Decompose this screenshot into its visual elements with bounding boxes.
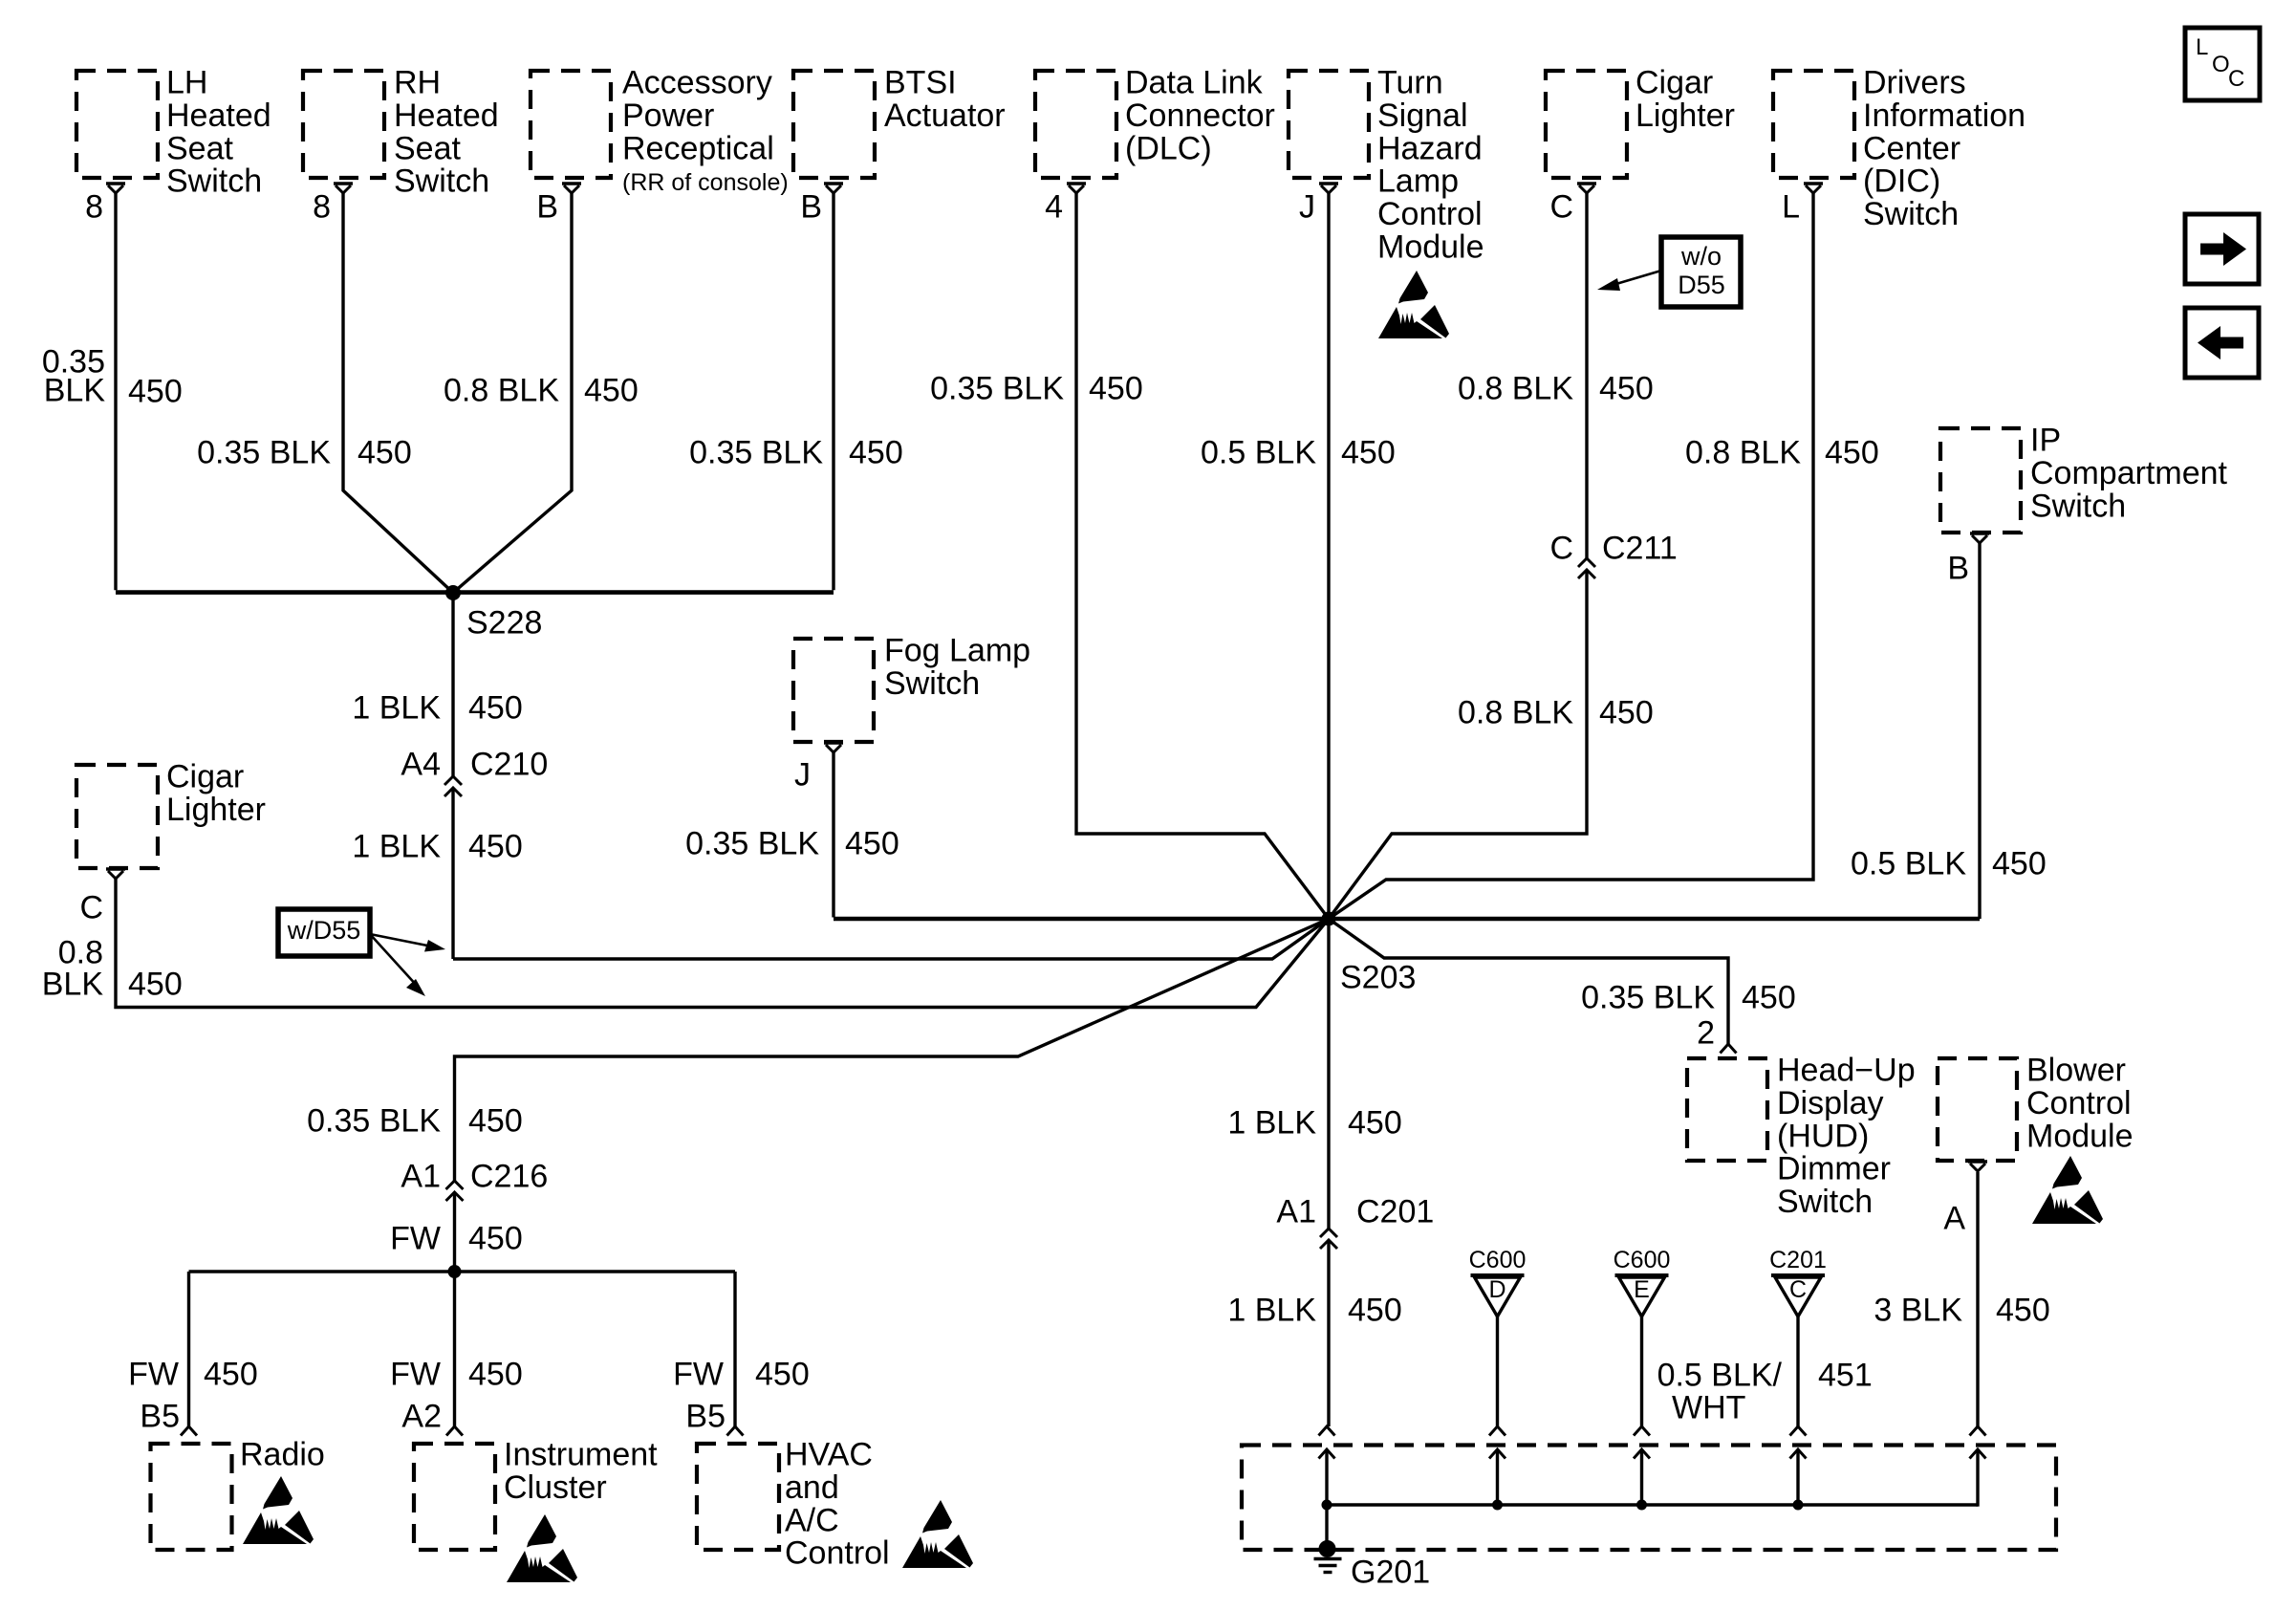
svg-text:0.35 BLK: 0.35 BLK — [689, 435, 823, 471]
svg-text:8: 8 — [313, 189, 331, 226]
svg-text:B: B — [536, 189, 558, 226]
pin connector under IP compartment switch — [1970, 533, 1989, 543]
svg-text:Seat: Seat — [166, 130, 233, 166]
svg-text:Switch: Switch — [166, 163, 262, 200]
svg-text:C: C — [79, 890, 103, 926]
wire inside harness box (turn signal trunk) — [1325, 1449, 1328, 1507]
label A1 C216 — [401, 1159, 548, 1195]
svg-text:J: J — [794, 757, 811, 794]
label 0.8 BLK 450 (DIC wire) — [1685, 435, 1879, 471]
svg-text:Dimmer: Dimmer — [1777, 1151, 1891, 1187]
svg-text:Connector: Connector — [1125, 98, 1275, 134]
label 0.35 BLK 450 (LH wire) — [42, 344, 183, 410]
wire 0.35 BLK 450 from fog lamp switch — [832, 752, 834, 918]
svg-text:Module: Module — [2026, 1118, 2134, 1154]
svg-text:D: D — [1488, 1276, 1505, 1303]
svg-text:Switch: Switch — [1777, 1184, 1873, 1220]
right arrow glyph — [2200, 232, 2246, 266]
svg-text:450: 450 — [468, 1103, 523, 1140]
component box: Turn Signal Hazard Lamp Control Module — [1289, 71, 1369, 178]
svg-text:Switch: Switch — [1863, 196, 1959, 232]
label A4 C210 — [401, 747, 548, 783]
label 0.35 BLK 450 (fog lamp wire) — [685, 826, 899, 862]
harness crossing flare below box edge (C600 D) — [1489, 1449, 1505, 1459]
label 1 BLK 450 (below C210) — [352, 829, 522, 865]
svg-text:Cigar: Cigar — [1635, 65, 1713, 101]
svg-text:FW: FW — [390, 1221, 441, 1257]
svg-text:1 BLK: 1 BLK — [352, 690, 441, 727]
label 0.8 BLK 450 (below C211) — [1458, 695, 1654, 731]
label 0.8 BLK 450 (cigar lighter left wire) — [42, 935, 183, 1003]
component box: Cigar Lighter (left) — [76, 765, 158, 868]
wire inside harness box (C600 D) — [1496, 1449, 1499, 1507]
svg-text:Display: Display — [1777, 1085, 1883, 1121]
svg-text:RH: RH — [394, 65, 441, 101]
component box: Instrument Cluster — [414, 1444, 495, 1550]
component box: Fog Lamp Switch — [793, 639, 874, 742]
connector triangle C600 pin E — [1614, 1247, 1671, 1316]
svg-text:450: 450 — [128, 374, 183, 410]
label 1 BLK 450 (below C201) — [1227, 1293, 1401, 1329]
ESD symbol (HVAC control) — [902, 1500, 973, 1568]
svg-text:FW: FW — [128, 1357, 179, 1393]
label: Drivers Information Center (DIC) Switch — [1863, 65, 2025, 233]
svg-text:0.35 BLK: 0.35 BLK — [1581, 980, 1715, 1016]
harness crossing flare above box edge (blower) — [1970, 1426, 1986, 1436]
svg-text:Switch: Switch — [394, 163, 489, 200]
svg-text:Blower: Blower — [2026, 1053, 2126, 1089]
harness crossing flare below box edge (C600 E) — [1634, 1449, 1650, 1459]
svg-text:450: 450 — [755, 1357, 810, 1393]
wire from C600 E to harness — [1640, 1316, 1643, 1426]
svg-text:L: L — [2196, 34, 2208, 60]
svg-text:FW: FW — [390, 1357, 441, 1393]
component box: LH Heated Seat Switch — [76, 71, 158, 178]
pin connector on top of HVAC control — [727, 1426, 744, 1436]
label: HVAC and A/C Control — [785, 1437, 890, 1572]
svg-text:0.8 BLK: 0.8 BLK — [1685, 435, 1801, 471]
pin connector under LH switch — [106, 184, 125, 193]
svg-text:C: C — [1549, 531, 1573, 567]
ground symbol G201 — [1314, 1559, 1342, 1573]
svg-text:Heated: Heated — [394, 98, 499, 134]
svg-text:4: 4 — [1045, 189, 1063, 226]
svg-text:Cluster: Cluster — [504, 1469, 607, 1506]
arrow from w/D55 to lower wire — [370, 934, 418, 987]
svg-text:A1: A1 — [1276, 1194, 1316, 1230]
svg-text:450: 450 — [1996, 1293, 2050, 1329]
svg-text:Control: Control — [1377, 196, 1483, 232]
svg-text:C201: C201 — [1356, 1194, 1434, 1230]
svg-text:0.5 BLK: 0.5 BLK — [1201, 435, 1316, 471]
svg-text:Lighter: Lighter — [166, 792, 266, 828]
wire inside harness box (blower) — [1976, 1449, 1979, 1507]
svg-text:C201: C201 — [1769, 1247, 1827, 1273]
svg-text:Switch: Switch — [884, 665, 980, 702]
label 0.35 BLK 450 (RH wire) — [197, 435, 412, 471]
svg-text:C210: C210 — [470, 747, 548, 783]
svg-text:O: O — [2212, 52, 2230, 77]
svg-text:B: B — [800, 189, 822, 226]
connector C201 (pin A1) — [1320, 1229, 1337, 1249]
svg-text:A2: A2 — [401, 1399, 442, 1435]
component box: Accessory Power Receptical — [531, 71, 611, 178]
wire 1 BLK 450 below C210 — [451, 788, 454, 959]
harness crossing flare below box edge (C201 C) — [1790, 1449, 1807, 1459]
wire from C210 leg to splice S203 (w/D55 branch) — [453, 919, 1329, 959]
wire 0.8 BLK 450 from DIC pin L to S203 — [1329, 192, 1813, 919]
legend box: right arrow — [2185, 214, 2259, 284]
wire 3 BLK 450 from blower control module — [1976, 1172, 1979, 1426]
label: Data Link Connector (DLC) — [1125, 65, 1275, 167]
pin connector under BTSI actuator — [824, 184, 843, 193]
svg-text:0.35 BLK: 0.35 BLK — [930, 371, 1064, 407]
wire 0.8 BLK 450 from cigar lighter pin C to C211 — [1585, 192, 1588, 558]
pin connector under fog lamp switch — [824, 743, 843, 752]
svg-text:w/o: w/o — [1680, 242, 1722, 271]
harness crossing flare above box edge (turn signal trunk) — [1319, 1426, 1335, 1436]
svg-text:450: 450 — [1599, 695, 1654, 731]
wire FW 450 to radio — [187, 1272, 190, 1426]
svg-text:HVAC: HVAC — [785, 1437, 873, 1473]
svg-text:and: and — [785, 1469, 839, 1506]
svg-text:BLK: BLK — [44, 373, 106, 409]
svg-text:E: E — [1634, 1276, 1650, 1303]
svg-text:A1: A1 — [401, 1159, 441, 1195]
svg-text:450: 450 — [1348, 1105, 1402, 1142]
svg-text:Head−Up: Head−Up — [1777, 1053, 1916, 1089]
svg-text:Control: Control — [785, 1535, 890, 1572]
label: Head-Up Display (HUD) Dimmer Switch — [1777, 1053, 1916, 1221]
wire from C211 down to splice S203 — [1329, 570, 1587, 919]
svg-text:450: 450 — [128, 967, 183, 1003]
svg-text:3 BLK: 3 BLK — [1874, 1293, 1962, 1329]
harness crossing flare above box edge (C600 D) — [1489, 1426, 1505, 1436]
component box: Drivers Information Center (DIC) Switch — [1773, 71, 1854, 178]
svg-text:Seat: Seat — [394, 130, 461, 166]
ESD symbol (radio) — [243, 1476, 314, 1544]
svg-text:LH: LH — [166, 65, 207, 101]
svg-text:450: 450 — [468, 690, 523, 727]
label 0.35 BLK 450 (HUD wire) — [1581, 980, 1796, 1016]
FW distribution junction dot — [448, 1265, 462, 1278]
component box: IP Compartment Switch — [1940, 428, 2021, 533]
svg-text:Compartment: Compartment — [2030, 455, 2228, 491]
svg-text:C600: C600 — [1469, 1247, 1527, 1273]
svg-text:FW: FW — [673, 1357, 724, 1393]
svg-text:G201: G201 — [1351, 1555, 1430, 1591]
pin connector on top of instrument cluster — [446, 1426, 463, 1436]
label: Turn Signal Hazard Lamp Control Module — [1377, 65, 1484, 266]
svg-text:2: 2 — [1697, 1015, 1715, 1052]
connector triangle C201 pin C — [1769, 1247, 1827, 1316]
svg-text:C: C — [1789, 1276, 1807, 1303]
svg-text:Control: Control — [2026, 1085, 2132, 1121]
svg-text:B5: B5 — [685, 1399, 726, 1435]
svg-text:B5: B5 — [140, 1399, 180, 1435]
svg-text:WHT: WHT — [1672, 1390, 1745, 1426]
svg-text:Module: Module — [1377, 229, 1484, 266]
label: Cigar Lighter (upper) — [1635, 65, 1735, 134]
harness crossing flare above box edge (C201 C) — [1790, 1426, 1807, 1436]
svg-text:J: J — [1299, 189, 1315, 226]
harness crossing flare below box edge (turn signal trunk) — [1319, 1449, 1335, 1459]
legend letters L O C — [2196, 34, 2244, 92]
pin connector under cigar lighter (left) — [106, 869, 125, 879]
svg-text:450: 450 — [1089, 371, 1143, 407]
svg-text:1 BLK: 1 BLK — [1227, 1293, 1316, 1329]
svg-text:BLK: BLK — [42, 967, 104, 1003]
svg-text:8: 8 — [85, 189, 103, 226]
svg-text:450: 450 — [204, 1357, 258, 1393]
svg-text:450: 450 — [468, 1357, 523, 1393]
label 1 BLK 450 (above C201) — [1227, 1105, 1401, 1142]
svg-text:Drivers: Drivers — [1863, 65, 1966, 101]
callout box: w/D55 — [278, 909, 370, 956]
svg-text:451: 451 — [1818, 1358, 1873, 1394]
svg-text:450: 450 — [845, 826, 899, 862]
svg-text:450: 450 — [849, 435, 903, 471]
ground bus junction dot (trunk) — [1322, 1500, 1332, 1511]
svg-text:0.8 BLK: 0.8 BLK — [1458, 695, 1573, 731]
svg-text:Accessory: Accessory — [622, 65, 772, 101]
svg-text:0.35 BLK: 0.35 BLK — [307, 1103, 441, 1140]
svg-text:L: L — [1782, 189, 1800, 226]
wire 450 from RH switch pin 8 — [343, 192, 453, 593]
pin connector under accessory power receptical — [562, 184, 581, 193]
svg-text:0.8 BLK: 0.8 BLK — [1458, 371, 1573, 407]
connector C216 (pin A1) — [446, 1181, 464, 1201]
wire inside harness box (C600 E) — [1640, 1449, 1643, 1507]
arrow from w/o D55 to cigar lighter wire — [1610, 271, 1661, 286]
svg-text:450: 450 — [1992, 846, 2047, 882]
label FW 450 (HVAC drop) — [673, 1357, 810, 1393]
svg-text:450: 450 — [1348, 1293, 1402, 1329]
ground bus junction dot (C600 E) — [1636, 1500, 1647, 1511]
svg-text:A: A — [1943, 1201, 1965, 1237]
connector triangle C600 pin D — [1469, 1247, 1527, 1316]
label: Blower Control Module — [2026, 1053, 2134, 1155]
harness crossing flare below box edge (blower) — [1970, 1449, 1986, 1459]
svg-text:Receptical: Receptical — [622, 130, 774, 166]
wire FW 450 to HVAC control — [733, 1272, 736, 1426]
label: Cigar Lighter (left) — [166, 759, 266, 828]
svg-text:Radio: Radio — [240, 1437, 325, 1473]
svg-text:Hazard: Hazard — [1377, 130, 1483, 166]
svg-text:1 BLK: 1 BLK — [1227, 1105, 1316, 1142]
svg-text:Signal: Signal — [1377, 98, 1468, 134]
label A1 C201 — [1276, 1194, 1434, 1230]
label: Accessory Power Receptical — [622, 65, 774, 167]
svg-text:S228: S228 — [466, 605, 542, 642]
svg-text:Power: Power — [622, 98, 714, 134]
svg-text:C600: C600 — [1614, 1247, 1671, 1273]
pin connector on top of HUD dimmer switch — [1721, 1044, 1737, 1054]
wire FW 450 from C216 to instrument cluster — [453, 1192, 456, 1426]
legend box: left arrow — [2185, 308, 2259, 378]
wire 0.35 BLK 450 from splice S203 to connector C216 — [455, 919, 1330, 1181]
svg-text:0.35 BLK: 0.35 BLK — [197, 435, 331, 471]
svg-text:A/C: A/C — [785, 1502, 839, 1538]
label 0.35 BLK 450 (C216 wire) — [307, 1103, 523, 1140]
arrow from w/D55 to upper wire — [370, 934, 432, 946]
left arrow glyph — [2198, 326, 2243, 359]
svg-text:Information: Information — [1863, 98, 2025, 134]
label 0.5 BLK 450 (turn signal wire) — [1201, 435, 1396, 471]
svg-text:(DIC): (DIC) — [1863, 163, 1940, 200]
harness box around ground bus G201 — [1242, 1446, 2056, 1551]
svg-text:Turn: Turn — [1377, 65, 1443, 101]
wire: ground bus inside harness box — [1327, 1503, 1978, 1506]
svg-text:Data Link: Data Link — [1125, 65, 1264, 101]
label 3 BLK 450 (blower wire) — [1874, 1293, 2049, 1329]
svg-text:1 BLK: 1 BLK — [352, 829, 441, 865]
wire inside harness box (C201 C) — [1796, 1449, 1799, 1507]
wire: FW distribution horizontal — [189, 1270, 736, 1273]
svg-text:Heated: Heated — [166, 98, 271, 134]
label 0.35 BLK 450 (DLC wire) — [930, 371, 1143, 407]
svg-text:C216: C216 — [470, 1159, 548, 1195]
svg-text:Actuator: Actuator — [884, 98, 1006, 134]
component box: RH Heated Seat Switch — [303, 71, 384, 178]
svg-text:w/D55: w/D55 — [287, 916, 361, 945]
svg-text:Lighter: Lighter — [1635, 98, 1735, 134]
splice S228 junction dot — [445, 585, 461, 600]
svg-text:B: B — [1947, 551, 1969, 587]
svg-text:(RR of console): (RR of console) — [622, 169, 789, 196]
label FW 450 (below C216) — [390, 1221, 523, 1257]
svg-text:0.5 BLK/: 0.5 BLK/ — [1657, 1358, 1783, 1394]
label 0.35 BLK 450 (BTSI wire) — [689, 435, 903, 471]
wire: splice S203 to IP compartment switch — [1329, 917, 1980, 922]
wire 450 from LH switch pin 8 — [114, 192, 117, 590]
label FW 450 (instrument cluster drop) — [390, 1357, 523, 1393]
svg-text:D55: D55 — [1678, 271, 1725, 299]
connector C211 (pin C) — [1578, 558, 1595, 578]
component box: Radio — [151, 1444, 232, 1550]
splice S203 junction dot — [1322, 912, 1336, 926]
svg-text:Cigar: Cigar — [166, 759, 244, 795]
harness crossing flare above box edge (C600 E) — [1634, 1426, 1650, 1436]
ground attachment dot G201 — [1319, 1540, 1336, 1557]
svg-text:(HUD): (HUD) — [1777, 1118, 1869, 1154]
svg-text:BTSI: BTSI — [884, 65, 957, 101]
svg-text:450: 450 — [1341, 435, 1396, 471]
svg-text:Fog Lamp: Fog Lamp — [884, 633, 1030, 669]
wire 0.5 BLK 450 from IP compartment switch — [1978, 543, 1981, 919]
wire 0.8 BLK 450 from cigar lighter (left) to splice S203 — [116, 879, 1329, 1008]
svg-text:450: 450 — [468, 829, 523, 865]
label: LH Heated Seat Switch — [166, 65, 271, 200]
component box: Data Link Connector (DLC) — [1035, 71, 1116, 178]
svg-text:C211: C211 — [1602, 531, 1678, 567]
ESD symbol (turn signal module) — [1378, 271, 1449, 338]
label C C211 — [1549, 531, 1677, 567]
ground bus junction dot (C600 D) — [1492, 1500, 1503, 1511]
pin connector under RH switch — [334, 184, 353, 193]
label 0.5 BLK/WHT 451 — [1657, 1358, 1873, 1426]
component box: Cigar Lighter (upper) — [1546, 71, 1627, 178]
ground bus junction dot (C201 C) — [1793, 1500, 1804, 1511]
text w/o D55 — [1678, 242, 1725, 299]
svg-text:Center: Center — [1863, 130, 1960, 166]
wire from turn signal module pin J through S203 to C201 — [1327, 192, 1330, 1229]
wire 0.5 BLK/WHT 451 from C201 C to harness — [1796, 1316, 1799, 1426]
callout box: w/o D55 — [1661, 237, 1741, 307]
label: Instrument Cluster — [504, 1437, 658, 1506]
label: RH Heated Seat Switch — [394, 65, 499, 200]
wire 1 BLK 450 below C201 — [1327, 1240, 1330, 1426]
label: BTSI Actuator — [884, 65, 1006, 134]
connector C210 (pin A4) — [444, 776, 462, 796]
component box: HVAC and A/C Control — [697, 1444, 779, 1550]
wire 450 from accessory power receptical pin B — [453, 192, 572, 593]
label FW 450 (radio drop) — [128, 1357, 258, 1393]
svg-text:450: 450 — [1742, 980, 1796, 1016]
label: IP Compartment Switch — [2030, 423, 2228, 525]
wire 1 BLK 450 from S228 down to C210 — [451, 593, 454, 776]
wire 0.35 BLK 450 from DLC pin 4 to S203 — [1076, 192, 1329, 919]
pin connector on top of radio — [181, 1426, 197, 1436]
component box: Head-Up Display (HUD) Dimmer Switch — [1687, 1058, 1767, 1161]
pin connector under turn signal module — [1319, 184, 1338, 193]
svg-text:450: 450 — [584, 373, 639, 409]
svg-text:450: 450 — [1599, 371, 1654, 407]
svg-text:450: 450 — [1825, 435, 1879, 471]
wire: fog lamp horizontal into splice S203 — [834, 917, 1329, 922]
ESD symbol (blower control module) — [2032, 1156, 2103, 1224]
pin connector under DIC switch — [1804, 184, 1823, 193]
label 0.8 BLK 450 (accessory wire) — [444, 373, 639, 409]
wire from ground bus down to G201 — [1325, 1505, 1328, 1547]
svg-text:450: 450 — [468, 1221, 523, 1257]
svg-text:S203: S203 — [1340, 960, 1416, 996]
component box: Blower Control Module — [1938, 1058, 2017, 1161]
svg-text:450: 450 — [357, 435, 412, 471]
legend box: LOC — [2185, 28, 2260, 100]
svg-text:0.5 BLK: 0.5 BLK — [1851, 846, 1966, 882]
svg-text:Switch: Switch — [2030, 488, 2126, 524]
ESD symbol (instrument cluster) — [507, 1514, 577, 1582]
svg-text:IP: IP — [2030, 423, 2061, 459]
label 1 BLK 450 (above C210) — [352, 690, 522, 727]
svg-text:C: C — [2228, 66, 2244, 92]
pin connector under blower control module — [1968, 1162, 1987, 1171]
svg-text:C: C — [1549, 189, 1573, 226]
wire from C600 D to harness — [1496, 1316, 1499, 1426]
pin connector under cigar lighter (upper) — [1577, 184, 1596, 193]
svg-text:0.35 BLK: 0.35 BLK — [685, 826, 819, 862]
wire: horizontal bus into splice S228 — [116, 590, 834, 595]
svg-text:Instrument: Instrument — [504, 1437, 658, 1473]
wire 450 from BTSI actuator pin B — [832, 192, 834, 590]
svg-text:A4: A4 — [401, 747, 441, 783]
svg-text:Lamp: Lamp — [1377, 163, 1459, 200]
component box: BTSI Actuator — [793, 71, 875, 178]
label 0.5 BLK 450 (IP compartment wire) — [1851, 846, 2047, 882]
label 0.8 BLK 450 (cigar lighter wire) — [1458, 371, 1654, 407]
pin connector under DLC — [1067, 184, 1086, 193]
svg-text:0.8 BLK: 0.8 BLK — [444, 373, 559, 409]
svg-text:(DLC): (DLC) — [1125, 130, 1212, 166]
wire 0.35 BLK 450 from S203 to HUD dimmer switch — [1329, 919, 1728, 1044]
label: Fog Lamp Switch — [884, 633, 1030, 702]
